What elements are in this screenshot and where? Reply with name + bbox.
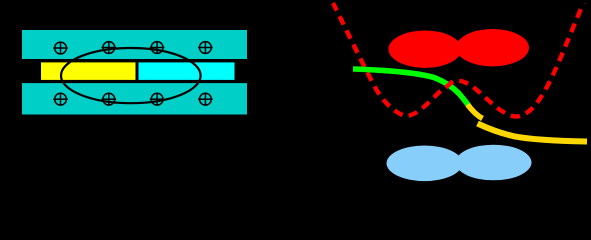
charge symbol bottom 4	[198, 93, 213, 106]
mask stray dash fragment top right	[582, 0, 591, 3]
charge symbol bottom 2	[102, 93, 117, 106]
bottom electrode plate (teal)	[22, 83, 247, 114]
charge symbol top 4	[198, 41, 213, 54]
red electron-pair ellipse right	[456, 29, 529, 66]
yellow lower level curve segment A	[468, 105, 483, 119]
exciton region ellipse outline	[61, 48, 201, 103]
red dashed double-well potential curve	[333, 0, 585, 116]
red electron-pair ellipse left	[389, 31, 462, 68]
blue hole-pair ellipse right	[456, 145, 532, 181]
quantum well segment yellow	[41, 62, 136, 80]
charge symbol top 2	[102, 41, 117, 54]
charge symbol bottom 3	[150, 93, 165, 106]
charge symbol top 1	[53, 42, 68, 55]
red dash overlapping green at bump	[446, 82, 453, 88]
top electrode plate (teal)	[22, 30, 247, 59]
charge symbol top 3	[150, 41, 165, 54]
middle barrier layer (black)	[22, 59, 247, 83]
charge symbol bottom 1	[53, 93, 68, 106]
blue hole-pair ellipse left	[387, 146, 463, 182]
quantum well segment cyan	[139, 62, 235, 80]
green upper level curve	[353, 69, 470, 107]
plus charge symbols top row	[53, 41, 213, 106]
yellow lower level curve segment B	[478, 124, 588, 142]
